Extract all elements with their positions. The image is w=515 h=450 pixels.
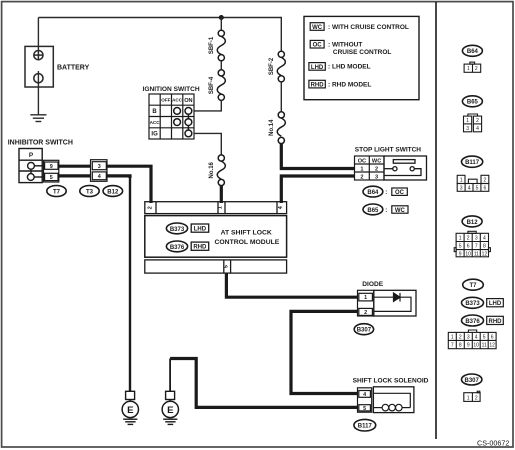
wire fuse No.16 to module pin 1 [220, 186, 223, 203]
wire top rail [38, 17, 281, 19]
svg-text:SHIFT LOCK SOLENOID: SHIFT LOCK SOLENOID [353, 377, 429, 384]
svg-text:2: 2 [148, 206, 154, 209]
ignition switch contacts [174, 108, 192, 137]
inhibitor pins 9/5 connector [44, 160, 59, 182]
column separator line [435, 2, 437, 439]
wire pin 9 to pin 3 [59, 165, 91, 168]
LHD tag [191, 224, 209, 232]
svg-text:LHD: LHD [311, 65, 324, 71]
module bottom connector strip [145, 260, 287, 273]
svg-text:5: 5 [459, 244, 462, 250]
wire pin 3 to module pin 2 [107, 166, 151, 203]
svg-text:9: 9 [467, 343, 470, 349]
svg-text:8: 8 [483, 244, 486, 250]
connector B65 oval (right column) [462, 96, 482, 107]
svg-text:B373: B373 [465, 301, 480, 307]
legend ref WC box [392, 206, 408, 213]
svg-text:4: 4 [475, 335, 478, 341]
svg-text:B12: B12 [107, 189, 119, 195]
svg-text:4: 4 [98, 174, 101, 180]
svg-text:OC: OC [313, 43, 323, 49]
svg-text:3: 3 [466, 126, 469, 132]
diode D1 body [374, 290, 416, 316]
wire to E right connector [169, 359, 171, 392]
svg-text:OC: OC [358, 158, 366, 164]
fuse SBF-4 [217, 70, 225, 101]
legend ref OC box [392, 188, 408, 195]
svg-text:B64: B64 [367, 190, 379, 196]
svg-text:SBF-2: SBF-2 [269, 57, 275, 75]
svg-text:4: 4 [278, 206, 284, 209]
svg-text:5: 5 [50, 175, 53, 181]
svg-text:B117: B117 [358, 424, 373, 430]
svg-text:CRUISE CONTROL: CRUISE CONTROL [333, 49, 392, 56]
svg-text:2: 2 [475, 396, 478, 402]
svg-text::: : [385, 208, 387, 214]
svg-text:B65: B65 [467, 100, 479, 106]
svg-text:7: 7 [475, 244, 478, 250]
connector B307 pinout [464, 391, 480, 401]
svg-text:B117: B117 [465, 160, 480, 166]
svg-text::: : [385, 190, 387, 196]
connector B376 oval [166, 241, 187, 252]
svg-text:B65: B65 [367, 208, 379, 214]
svg-text:: WITH CRUISE CONTROL: : WITH CRUISE CONTROL [328, 24, 409, 31]
svg-text:10: 10 [473, 343, 479, 349]
connector B12 oval (right column) [462, 216, 482, 227]
svg-text:No.16: No.16 [209, 161, 215, 178]
RHD tag (right column) [487, 316, 504, 324]
svg-text:: WITHOUT: : WITHOUT [328, 42, 362, 49]
stop light switch connector table [355, 156, 385, 180]
svg-text:RHD: RHD [193, 245, 207, 251]
svg-text:: LHD MODEL: : LHD MODEL [328, 64, 371, 71]
svg-text:WC: WC [312, 25, 323, 31]
svg-text:B376: B376 [465, 319, 480, 325]
svg-text:1: 1 [218, 206, 224, 209]
svg-text:6: 6 [491, 335, 494, 341]
wire No.14 to stop light switch 1 [281, 144, 354, 169]
fuse SBF-2 [277, 51, 285, 82]
svg-text:3: 3 [375, 174, 378, 180]
diode symbol [374, 293, 411, 312]
svg-text:2: 2 [459, 335, 462, 341]
svg-text:OC: OC [395, 190, 405, 196]
svg-text:1: 1 [466, 118, 469, 124]
legend box [304, 16, 419, 99]
ground E left [122, 391, 138, 424]
svg-text:WC: WC [372, 158, 381, 164]
wire pin 4 down [107, 176, 130, 178]
module top connector strip [145, 202, 287, 214]
svg-text:1: 1 [459, 236, 462, 242]
connector B12 oval [103, 186, 123, 197]
connector B117 pinout [457, 175, 489, 191]
connector 3/4 [91, 160, 108, 182]
wire solenoid 5 to ground E right [170, 359, 357, 408]
svg-text:4: 4 [483, 236, 486, 242]
solenoid internal wire [373, 393, 410, 407]
svg-text:11: 11 [482, 343, 487, 349]
svg-text:5: 5 [223, 265, 229, 268]
legend RHD tag [309, 80, 325, 88]
connector B307 oval (right column) [462, 374, 482, 385]
solenoid L1 body [373, 387, 414, 413]
svg-text:2: 2 [467, 236, 470, 242]
svg-text:T7: T7 [469, 283, 477, 289]
svg-text:AT SHIFT LOCK: AT SHIFT LOCK [221, 230, 272, 237]
svg-text:SBF-4: SBF-4 [209, 76, 215, 94]
connector B64 pinout [464, 62, 481, 72]
solenoid connector 4/5 [358, 388, 372, 412]
svg-text:5: 5 [483, 335, 486, 341]
svg-text:RHD: RHD [489, 319, 503, 325]
svg-text:2: 2 [364, 310, 367, 316]
connector B65 pinout [464, 114, 482, 132]
svg-text:B373: B373 [170, 227, 185, 233]
svg-text:STOP LIGHT SWITCH: STOP LIGHT SWITCH [355, 147, 422, 154]
svg-text:3: 3 [467, 335, 470, 341]
legend LHD tag [309, 63, 325, 71]
svg-text:ON: ON [184, 98, 192, 104]
wire module pin 5 to diode 1 [226, 273, 357, 298]
wire ignition IG to fuse No.16 [194, 133, 221, 155]
svg-text:T7: T7 [53, 189, 61, 195]
svg-text:CONTROL MODULE: CONTROL MODULE [214, 239, 279, 246]
connector T3 oval [80, 186, 99, 197]
solenoid coil [373, 404, 410, 411]
svg-text:1: 1 [451, 335, 454, 341]
svg-text:B64: B64 [467, 49, 479, 55]
svg-text:5: 5 [476, 185, 479, 191]
svg-text:RHD: RHD [311, 83, 325, 89]
legend OC tag [310, 40, 324, 48]
svg-text:T3: T3 [86, 189, 94, 195]
svg-text:8: 8 [459, 343, 462, 349]
svg-text:4: 4 [476, 126, 479, 132]
battery B1 [25, 46, 53, 87]
ground E right [162, 391, 178, 424]
wire top rail to SBF-2 [280, 17, 282, 51]
svg-text:2: 2 [475, 66, 478, 72]
module AT SHIFT LOCK CONTROL MODULE box [145, 216, 287, 258]
connector B376 oval (right column) [462, 315, 484, 326]
wire down to ground E left [129, 176, 131, 391]
wire to SBF-1 [220, 18, 222, 31]
wire battery to top rail [37, 18, 39, 51]
wire SBF-4 to ignition switch B [194, 100, 221, 111]
RHD tag [191, 242, 209, 250]
svg-text:1: 1 [460, 177, 463, 183]
svg-text:12: 12 [482, 251, 488, 257]
svg-text:BATTERY: BATTERY [57, 64, 90, 71]
svg-text:1: 1 [467, 396, 470, 402]
svg-text:3: 3 [460, 185, 463, 191]
fuse SBF-1 [217, 30, 225, 61]
svg-text:ACC: ACC [172, 98, 183, 103]
svg-text:4: 4 [363, 392, 366, 398]
svg-text:2: 2 [375, 166, 378, 172]
svg-text:3: 3 [98, 164, 101, 170]
connector B373 oval (right column) [462, 297, 484, 308]
svg-text:No.14: No.14 [269, 119, 275, 136]
svg-text:LHD: LHD [489, 301, 502, 307]
svg-text:5: 5 [363, 406, 366, 412]
svg-text:2: 2 [484, 177, 487, 183]
svg-text:IGNITION SWITCH: IGNITION SWITCH [143, 86, 200, 93]
fuse No.14 [277, 112, 285, 144]
svg-text:P: P [29, 152, 34, 159]
connector B64 oval [363, 186, 383, 197]
wire stop light switch 2 to module pin 4 [281, 176, 354, 203]
svg-text:12: 12 [489, 343, 495, 349]
connector B117 oval (right column) [462, 156, 483, 167]
svg-text:1: 1 [467, 66, 470, 72]
ignition switch table [149, 94, 194, 139]
diode connector 1/2 [358, 290, 374, 316]
svg-text:3: 3 [475, 236, 478, 242]
inhibitor switch body [19, 149, 44, 183]
svg-text:B: B [152, 109, 157, 115]
svg-text:10: 10 [465, 251, 471, 257]
wire battery negative to ground [37, 71, 39, 115]
svg-text:B376: B376 [170, 245, 185, 251]
legend WC tag [310, 23, 324, 31]
ground battery [30, 115, 46, 122]
wire SBF-2 to No.14 [280, 82, 282, 112]
svg-text:E: E [167, 405, 174, 416]
wire SBF-1 to SBF-4 [220, 61, 222, 70]
svg-text:E: E [127, 405, 134, 416]
junction dot top rail [219, 15, 224, 20]
svg-text:7: 7 [451, 343, 454, 349]
wire diode 2 to solenoid 4 [291, 311, 358, 393]
svg-text:2: 2 [360, 174, 363, 180]
svg-text:2: 2 [476, 118, 479, 124]
svg-text:SBF-1: SBF-1 [209, 36, 215, 54]
svg-text:IG: IG [151, 132, 158, 138]
connector T7 oval [47, 186, 66, 197]
svg-text:6: 6 [467, 244, 470, 250]
LHD tag (right column) [487, 299, 504, 307]
connector T7 oval (right column) [463, 279, 484, 290]
svg-text:OFF: OFF [161, 98, 170, 103]
connector B373 oval [166, 223, 187, 234]
connector B307 oval [354, 324, 373, 335]
svg-text:LHD: LHD [194, 227, 207, 233]
svg-text:WC: WC [395, 208, 406, 214]
svg-text:CS-00672: CS-00672 [477, 439, 509, 448]
connector B373/B376 pinout [448, 330, 496, 349]
svg-text:4: 4 [468, 185, 471, 191]
svg-text:9: 9 [459, 251, 462, 257]
connector B117 oval [354, 419, 376, 431]
stop light switch body [384, 156, 427, 180]
svg-text:INHIBITOR SWITCH: INHIBITOR SWITCH [8, 140, 73, 147]
svg-text:ACC: ACC [150, 120, 161, 125]
wire pin 5 to pin 4 [59, 174, 91, 177]
svg-text:B307: B307 [465, 378, 480, 384]
connector B65 oval [363, 204, 383, 215]
svg-text:DIODE: DIODE [362, 281, 383, 288]
svg-text:9: 9 [50, 164, 53, 170]
connector B12 pinout [454, 231, 490, 256]
svg-text:B307: B307 [357, 328, 372, 334]
svg-text:6: 6 [484, 185, 487, 191]
connector B64 oval (right column) [462, 45, 482, 56]
svg-text:B12: B12 [467, 220, 479, 226]
svg-text:1: 1 [364, 295, 367, 301]
svg-text:1: 1 [360, 166, 363, 172]
svg-text:11: 11 [474, 251, 479, 257]
fuse No.16 [217, 155, 225, 186]
svg-text:: RHD MODEL: : RHD MODEL [328, 81, 371, 88]
